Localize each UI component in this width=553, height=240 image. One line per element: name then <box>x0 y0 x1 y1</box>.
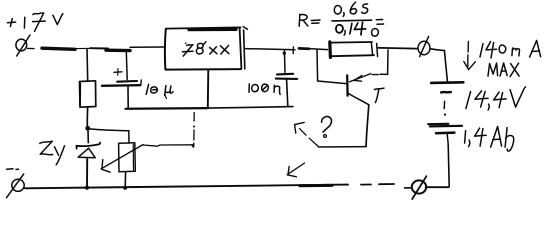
wire collector to question node <box>319 146 367 148</box>
node junction R1/zener/pot <box>85 126 90 131</box>
capacitor C2 100n lead from top rail <box>283 47 294 73</box>
wire drop right of R2 to emitter <box>372 50 388 75</box>
label 78xx <box>182 42 229 56</box>
wire top rail right (shunt to out terminal) <box>379 47 418 50</box>
capacitor C1 10u lead from top rail <box>125 51 128 80</box>
label 140 mA arrow <box>464 42 476 70</box>
capacitor C2 100n lead to rail <box>287 80 288 106</box>
terminal output - <box>412 176 427 199</box>
label MAX <box>488 63 519 77</box>
terminal output + <box>418 36 430 56</box>
terminal input + <box>16 35 30 56</box>
label Zy <box>40 141 65 165</box>
transistor T base bar <box>346 75 349 95</box>
transistor T collector <box>348 93 369 146</box>
label 1,4 Ah <box>465 127 514 152</box>
wire top rail middle (U1 out to shunt) <box>245 48 328 49</box>
label 140 m A <box>480 41 541 59</box>
label 14,4V <box>466 87 526 110</box>
annotation arrow down-left <box>287 163 304 177</box>
capacitor C1 10u plates <box>102 80 141 86</box>
wire top rail left <box>28 47 165 51</box>
label 10u <box>146 84 173 98</box>
wire bottom rail <box>25 184 449 188</box>
label minus <box>7 168 19 171</box>
node zener-ground junction <box>85 186 89 190</box>
label +17V <box>8 13 63 31</box>
annotation arrow up-left <box>295 122 319 146</box>
node pot-ground junction <box>123 186 127 190</box>
battery B1 <box>428 82 463 187</box>
capacitor C2 100n plates <box>276 74 297 79</box>
zener diode Zy <box>76 143 100 188</box>
capacitor C1 10u polarity + mark <box>114 69 122 76</box>
transistor T emitter with arrow <box>350 74 371 82</box>
capacitor C1 10u lead to rail <box>127 87 129 108</box>
wire U1 ground lead <box>207 70 210 108</box>
resistor R1 <box>80 81 96 107</box>
resistor R2 shunt <box>330 42 378 58</box>
potentiometer P1 <box>101 143 143 188</box>
wire R1 bottom to junction <box>86 107 88 126</box>
regulator U1 78xx box <box>165 27 247 70</box>
label 100n <box>249 84 280 94</box>
annotation question mark <box>322 117 332 138</box>
label R = 0,65 / 0,140 <box>299 2 383 36</box>
wire pot wiper <box>143 145 194 146</box>
label T <box>374 88 384 103</box>
wire junction to zener <box>87 130 89 143</box>
wire regulator ground rail <box>126 107 294 109</box>
wire dash-dot wiper to regulator ground rail <box>192 113 195 148</box>
wire out terminal to battery top <box>431 49 448 81</box>
wire drop to resistor R1 <box>86 49 89 82</box>
terminal input - <box>7 174 25 198</box>
wire junction to pot <box>89 129 129 143</box>
wire drop left of R2 to transistor base <box>317 50 346 84</box>
